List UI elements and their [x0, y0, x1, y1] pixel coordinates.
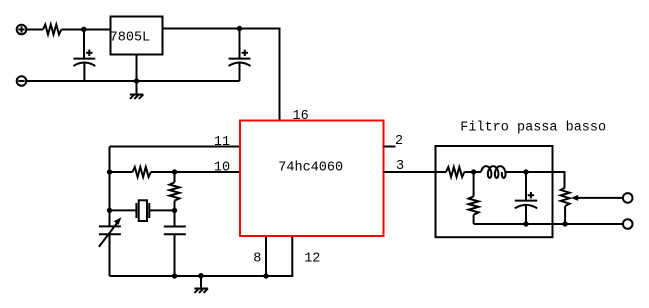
crystal Q1 [110, 200, 175, 221]
wire: oscillator ground rail [110, 236, 293, 276]
node: C5 top junction [523, 169, 528, 174]
wire: pin 10 row lead [110, 171, 133, 173]
terminal J- negative input [17, 76, 27, 86]
resistor R4 (filter series) [446, 167, 464, 177]
node: ground rail junction under 7805L [134, 78, 139, 83]
node: crystal row right junction [172, 208, 177, 213]
svg-text:7805L: 7805L [110, 30, 151, 45]
svg-text:74hc4060: 74hc4060 [278, 161, 343, 176]
resistor R3 (series to crystal) [170, 172, 180, 210]
wire: filter ground rail to J2 [474, 223, 623, 225]
op-amp/IC U1 74hc4060 [240, 121, 384, 237]
svg-text:Filtro passa basso: Filtro passa basso [460, 120, 606, 135]
terminal J1 output hot [623, 193, 633, 203]
svg-text:3: 3 [396, 159, 404, 174]
wire: pin 3 output to filter [384, 171, 447, 173]
node: C5 bottom junction [523, 221, 528, 226]
node: ground stub junction [198, 273, 203, 278]
terminal J2 output ground [623, 219, 633, 229]
node: C2 tap junction [237, 26, 242, 31]
wire: pin 8 to ground rail [265, 236, 267, 276]
capacitor C1 (input electrolytic) [73, 30, 95, 82]
wire: + terminal to R1 [27, 29, 44, 31]
voltage regulator U2 7805L [110, 17, 163, 55]
capacitor C5 (filter electrolytic) [515, 172, 537, 224]
wire: 7805L output to pin 16 (top rail) [163, 29, 280, 121]
node: crystal row left junction [107, 208, 112, 213]
capacitor C4 (load cap) [164, 210, 186, 276]
node: C4 ground junction [172, 273, 177, 278]
resistor R5 (filter shunt) [469, 172, 479, 224]
wire: pin 2 stub [384, 146, 396, 148]
wire: pin 11 feedback (top) [110, 146, 241, 148]
filter enclosure box [436, 146, 553, 237]
terminal J+ positive input [17, 25, 27, 35]
svg-text:11: 11 [214, 135, 230, 150]
ground symbol (power section) [130, 95, 144, 99]
wire: left branch below C3 [109, 234, 111, 276]
wire: 7805L ground pin [136, 55, 138, 95]
wire: R1 to 7805L input [61, 29, 110, 31]
wire: R4 to L1 [464, 171, 481, 173]
wire: R2 to pin 10 [151, 171, 240, 173]
inductor L1 [481, 166, 506, 178]
node: pot ground junction [562, 221, 567, 226]
svg-text:12: 12 [304, 252, 320, 267]
variable capacitor C3 (trimmer) [99, 217, 122, 247]
resistor R1 (series input) [43, 25, 61, 35]
node: R3 top junction [172, 169, 177, 174]
node: pin 8 ground junction [263, 273, 268, 278]
wire: bottom ground rail (input side) [27, 80, 240, 82]
node: C1 tap junction [81, 27, 86, 32]
wire: pot bottom lead [564, 206, 566, 224]
ground symbol (oscillator) [194, 276, 208, 293]
node: R5 top junction [471, 169, 476, 174]
svg-text:8: 8 [253, 252, 261, 267]
resistor R2 (feedback) [133, 167, 151, 177]
svg-text:2: 2 [395, 134, 403, 149]
wire: pot wiper to J1 with arrow [571, 195, 623, 201]
svg-text:16: 16 [292, 109, 308, 124]
wire: left vertical branch [109, 147, 111, 227]
svg-text:10: 10 [214, 161, 230, 176]
potentiometer R6 [561, 188, 570, 206]
capacitor C2 (output electrolytic) [229, 29, 251, 82]
node: pin 10 row left junction [107, 169, 112, 174]
wire: L1 to pot corner [506, 172, 565, 188]
